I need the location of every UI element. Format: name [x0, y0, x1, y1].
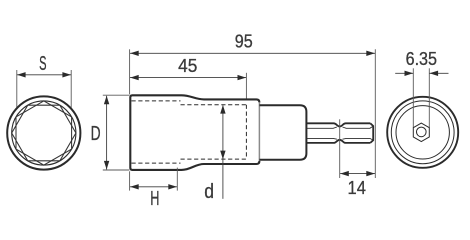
- dimension line 6.35 right segment: [429, 72, 448, 74]
- extension line 95/14 right: [374, 49, 376, 178]
- hex shank outer top with groove: [306, 123, 370, 126]
- collar circle: [391, 101, 454, 164]
- arrowhead 95 right: [366, 51, 375, 56]
- hidden bore line head top: [132, 100, 181, 102]
- hex shank inner edge top right: [343, 126, 374, 128]
- svg-text:S: S: [39, 53, 46, 75]
- socket inner circle: [12, 101, 76, 165]
- hex shank end face: [370, 123, 373, 143]
- svg-text:14: 14: [348, 177, 366, 198]
- arrowhead 95 left: [130, 51, 139, 56]
- dimension line S: [17, 74, 71, 76]
- 12pt profile hexagon (vertex top): [16, 101, 72, 165]
- svg-text:H: H: [150, 188, 159, 210]
- extension line D bottom: [103, 169, 130, 171]
- extension line S right: [70, 70, 72, 109]
- arrowhead H right: [168, 184, 177, 189]
- arrowhead S left: [17, 72, 26, 77]
- neck end face edge: [258, 102, 260, 161]
- svg-text:d: d: [204, 181, 214, 203]
- dimension arrow d: [222, 105, 224, 198]
- hex center hole circle: [417, 127, 427, 137]
- dimension line 6.35 left segment: [395, 72, 413, 74]
- extension line H left: [129, 171, 131, 190]
- extension line S left: [16, 70, 18, 108]
- dimension line D: [106, 96, 108, 170]
- hex shank outer bottom with groove: [306, 140, 370, 143]
- arrowhead 45 left: [130, 75, 139, 80]
- 12pt profile hexagon (vertex left): [12, 105, 76, 161]
- extension line 6.35 left: [412, 68, 414, 127]
- dimension line 45: [130, 77, 246, 79]
- arrowhead S right: [62, 72, 71, 77]
- hidden bore line neck top: [181, 104, 247, 106]
- extension line 95/45 left: [129, 49, 131, 94]
- adapter collar: [259, 105, 306, 160]
- dimension line H: [130, 186, 177, 188]
- dimension line 95: [130, 52, 375, 54]
- hex shank inner edge bottom left: [306, 137, 337, 140]
- socket body outline: [130, 95, 259, 170]
- extension line 14 left (groove center): [339, 119, 341, 178]
- shank outer circle: [387, 97, 458, 168]
- dimension line 14: [340, 173, 375, 175]
- svg-text:45: 45: [178, 55, 197, 76]
- hex shank inner edge bottom right: [343, 138, 374, 140]
- arrowhead H left: [130, 184, 139, 189]
- hidden bore line neck bottom: [181, 158, 247, 160]
- extension line H right: [176, 168, 178, 191]
- svg-text:95: 95: [235, 31, 253, 52]
- extension line 6.35 right: [428, 68, 430, 127]
- extension line D top: [103, 94, 130, 96]
- arrowhead 6.35 right (pointing left): [430, 71, 439, 76]
- svg-text:D: D: [91, 123, 101, 145]
- socket outer circle: [7, 96, 80, 169]
- arrowhead 45 right: [238, 75, 247, 80]
- arrowhead 6.35 left (pointing right): [405, 71, 414, 76]
- svg-text:6.35: 6.35: [406, 48, 437, 69]
- hex drive hexagon: [413, 123, 429, 141]
- hidden bore end vertical: [245, 105, 247, 159]
- arrowhead 14 right: [366, 171, 375, 176]
- arrowhead 14 left: [340, 171, 349, 176]
- extension line 45 right: [245, 73, 247, 100]
- arrowhead d down: [220, 151, 225, 160]
- arrowhead D down: [104, 161, 109, 170]
- body circle: [396, 106, 449, 159]
- hex shank inner edge top left: [306, 127, 337, 128]
- arrowhead d up: [220, 105, 225, 114]
- arrowhead D up: [104, 96, 109, 105]
- hidden bore line head bottom: [132, 162, 181, 164]
